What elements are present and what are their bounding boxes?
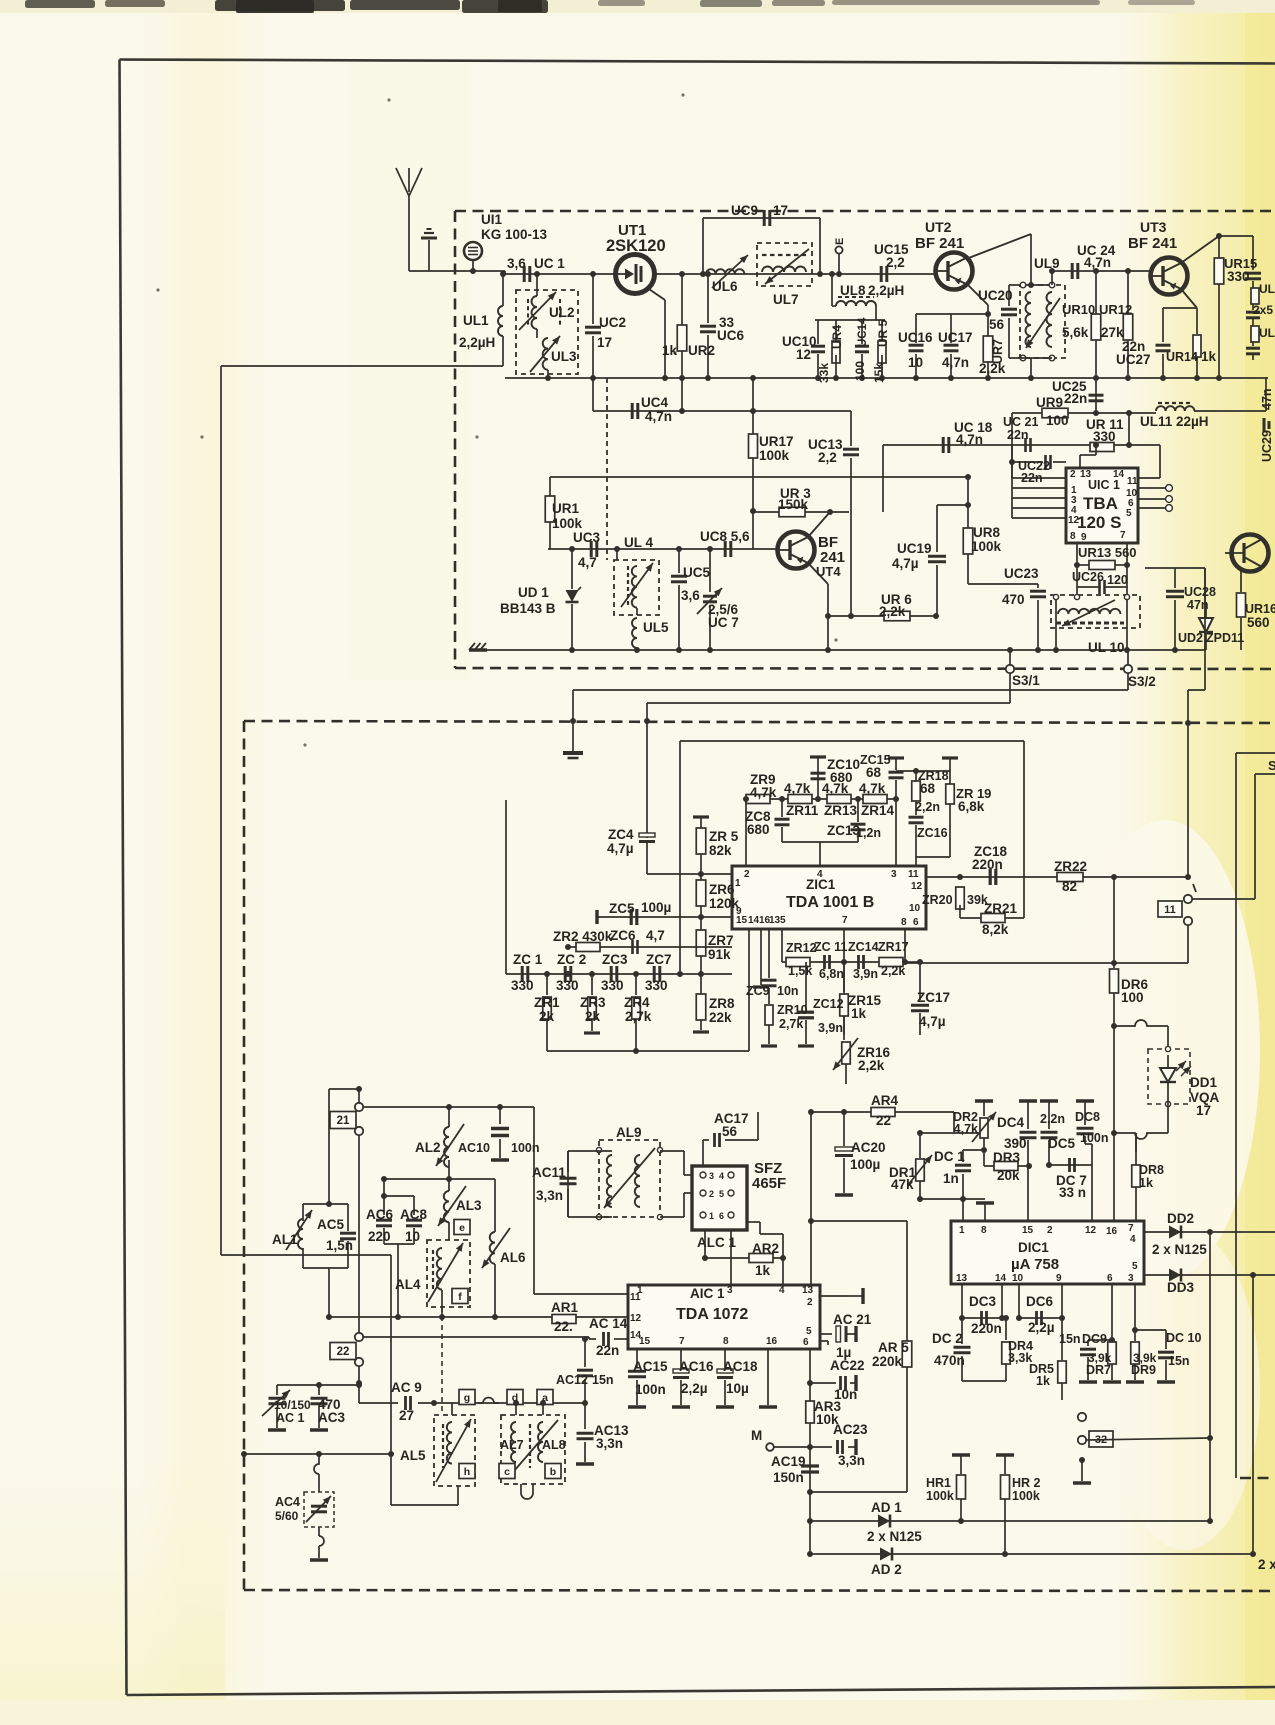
- svg-text:14: 14: [748, 915, 760, 926]
- svg-text:AC 14: AC 14: [589, 1316, 628, 1331]
- svg-text:AC5: AC5: [317, 1217, 344, 1232]
- svg-text:4,7: 4,7: [646, 928, 665, 943]
- svg-text:DR7: DR7: [1086, 1363, 1111, 1377]
- svg-text:3,9n: 3,9n: [818, 1021, 843, 1035]
- svg-text:UI1: UI1: [481, 212, 503, 227]
- svg-text:16: 16: [1106, 1226, 1118, 1237]
- svg-text:17: 17: [597, 335, 612, 350]
- svg-text:2: 2: [1070, 469, 1076, 480]
- svg-text:UL3: UL3: [551, 349, 577, 364]
- svg-text:15n: 15n: [1168, 1354, 1190, 1368]
- svg-text:ZC7: ZC7: [646, 952, 672, 967]
- svg-text:10: 10: [908, 355, 923, 370]
- svg-text:ZC 2: ZC 2: [557, 952, 586, 967]
- svg-text:4,7µ: 4,7µ: [892, 556, 919, 571]
- svg-text:AL5: AL5: [400, 1448, 426, 1463]
- svg-text:22n: 22n: [596, 1343, 619, 1358]
- svg-text:UR4: UR4: [830, 325, 844, 349]
- svg-text:100n: 100n: [511, 1141, 540, 1155]
- svg-text:68: 68: [920, 781, 936, 796]
- svg-text:680: 680: [747, 822, 770, 837]
- svg-text:15k: 15k: [872, 363, 886, 383]
- svg-text:DC8: DC8: [1075, 1110, 1100, 1124]
- svg-text:22n: 22n: [1064, 391, 1087, 406]
- svg-text:4,7n: 4,7n: [645, 409, 672, 424]
- svg-text:UR7: UR7: [991, 339, 1005, 364]
- svg-text:a: a: [542, 1392, 548, 1404]
- svg-text:AD 2: AD 2: [871, 1562, 902, 1577]
- svg-text:b: b: [550, 1466, 556, 1478]
- svg-text:UT3: UT3: [1140, 219, 1167, 235]
- svg-text:g: g: [464, 1392, 470, 1404]
- svg-text:22n: 22n: [1007, 428, 1029, 442]
- svg-text:1,2n: 1,2n: [856, 826, 881, 840]
- svg-text:M: M: [751, 1428, 762, 1443]
- svg-text:4,7µ: 4,7µ: [607, 841, 634, 856]
- svg-text:7: 7: [679, 1336, 685, 1347]
- svg-text:UC3: UC3: [573, 530, 600, 545]
- svg-text:22: 22: [337, 1346, 350, 1358]
- svg-text:2,2k: 2,2k: [881, 964, 905, 978]
- svg-text:ZR8: ZR8: [709, 996, 735, 1011]
- svg-text:1k: 1k: [662, 343, 678, 358]
- svg-text:3,6: 3,6: [507, 256, 526, 271]
- svg-text:ZC 11: ZC 11: [814, 940, 847, 954]
- svg-text:2,2k: 2,2k: [858, 1058, 885, 1073]
- svg-text:12: 12: [1085, 1225, 1097, 1236]
- svg-text:91k: 91k: [708, 947, 731, 962]
- svg-text:12: 12: [630, 1313, 642, 1324]
- svg-text:S3/1: S3/1: [1012, 673, 1040, 688]
- svg-text:1: 1: [959, 1225, 965, 1236]
- svg-text:2SK120: 2SK120: [606, 237, 666, 255]
- svg-text:DD3: DD3: [1167, 1280, 1194, 1295]
- svg-text:UR1: UR1: [552, 501, 579, 516]
- svg-text:5: 5: [1126, 508, 1132, 519]
- svg-text:11: 11: [630, 1292, 641, 1303]
- svg-text:10: 10: [909, 903, 921, 914]
- svg-text:22k: 22k: [709, 1010, 732, 1025]
- svg-text:5/60: 5/60: [275, 1509, 299, 1523]
- svg-text:AR2: AR2: [752, 1241, 779, 1256]
- svg-text:BB143 B: BB143 B: [500, 601, 556, 616]
- svg-text:UC28: UC28: [1184, 585, 1216, 599]
- svg-text:10n: 10n: [834, 1387, 857, 1402]
- svg-text:47n: 47n: [1187, 598, 1209, 612]
- svg-text:11: 11: [908, 869, 919, 880]
- svg-text:100k: 100k: [759, 448, 790, 463]
- svg-text:3,9n: 3,9n: [853, 967, 878, 981]
- svg-text:AL2: AL2: [415, 1140, 441, 1155]
- svg-text:UC8 5,6: UC8 5,6: [700, 529, 750, 544]
- svg-text:ZR6: ZR6: [709, 882, 735, 897]
- svg-text:82: 82: [1062, 879, 1077, 894]
- svg-text:4,7k: 4,7k: [954, 1122, 978, 1136]
- svg-text:12: 12: [1068, 515, 1080, 526]
- svg-text:2: 2: [807, 1297, 813, 1308]
- svg-text:AR 5: AR 5: [878, 1340, 909, 1355]
- svg-text:UC14: UC14: [857, 317, 869, 347]
- svg-text:AC22: AC22: [830, 1358, 865, 1373]
- svg-text:ZR3: ZR3: [580, 995, 606, 1010]
- svg-text:UC23: UC23: [1004, 566, 1039, 581]
- svg-text:DC6: DC6: [1026, 1294, 1053, 1309]
- svg-text:UC29: UC29: [1260, 430, 1274, 462]
- svg-text:4,7k: 4,7k: [784, 781, 811, 796]
- svg-text:2,2µH: 2,2µH: [868, 283, 904, 298]
- svg-text:560: 560: [1247, 615, 1270, 630]
- svg-text:465F: 465F: [752, 1175, 786, 1192]
- svg-text:3: 3: [727, 1285, 733, 1296]
- svg-text:10µ: 10µ: [726, 1381, 749, 1396]
- svg-text:UIC 1: UIC 1: [1088, 478, 1120, 492]
- svg-text:120: 120: [1107, 573, 1128, 587]
- svg-text:4: 4: [1130, 1234, 1136, 1245]
- svg-text:e: e: [459, 1222, 465, 1234]
- svg-text:AC12: AC12: [556, 1373, 588, 1387]
- svg-text:1k: 1k: [1201, 349, 1217, 364]
- svg-text:f: f: [458, 1291, 462, 1303]
- svg-text:UR 5: UR 5: [876, 319, 890, 347]
- svg-text:14: 14: [1113, 469, 1125, 480]
- svg-text:4,7n: 4,7n: [1084, 255, 1111, 270]
- svg-text:UC4: UC4: [641, 395, 668, 410]
- svg-text:UC16: UC16: [898, 330, 933, 345]
- svg-text:7: 7: [1120, 530, 1126, 541]
- svg-text:UD2: UD2: [1178, 631, 1203, 645]
- svg-text:8: 8: [981, 1225, 987, 1236]
- svg-text:6: 6: [1107, 1273, 1113, 1284]
- svg-text:TBA: TBA: [1083, 494, 1118, 513]
- svg-text:ZR11: ZR11: [786, 803, 819, 818]
- svg-text:4,7k: 4,7k: [859, 781, 886, 796]
- svg-text:10: 10: [405, 1229, 420, 1244]
- svg-text:2,7k: 2,7k: [625, 1009, 652, 1024]
- svg-text:1k: 1k: [755, 1263, 771, 1278]
- svg-text:ZR2 430k: ZR2 430k: [553, 929, 613, 944]
- svg-text:UT2: UT2: [925, 219, 952, 235]
- svg-text:17: 17: [773, 203, 788, 218]
- svg-text:ZC16: ZC16: [917, 826, 948, 840]
- svg-text:100k: 100k: [971, 539, 1002, 554]
- svg-text:120k: 120k: [709, 896, 740, 911]
- svg-text:2,2: 2,2: [886, 255, 905, 270]
- svg-text:1k: 1k: [1036, 1374, 1050, 1388]
- svg-text:14: 14: [995, 1273, 1007, 1284]
- svg-text:DR3: DR3: [993, 1150, 1020, 1165]
- svg-text:BF 241: BF 241: [915, 235, 964, 252]
- svg-text:UL6: UL6: [712, 279, 738, 294]
- svg-text:AIC 1: AIC 1: [690, 1286, 725, 1301]
- svg-text:1k: 1k: [851, 1006, 867, 1021]
- svg-text:AC3: AC3: [318, 1410, 345, 1425]
- svg-text:2 x N125: 2 x N125: [867, 1529, 922, 1544]
- svg-text:3,3n: 3,3n: [596, 1436, 623, 1451]
- svg-text:330: 330: [645, 978, 668, 993]
- svg-text:82k: 82k: [709, 843, 732, 858]
- svg-text:5: 5: [806, 1326, 812, 1337]
- svg-text:ZC 1: ZC 1: [513, 952, 543, 967]
- svg-text:7: 7: [1128, 1223, 1134, 1234]
- svg-text:DIC1: DIC1: [1018, 1240, 1049, 1255]
- svg-text:UC2: UC2: [599, 315, 626, 330]
- svg-text:UL1: UL1: [463, 313, 489, 328]
- svg-text:27k: 27k: [1101, 325, 1124, 340]
- svg-text:220n: 220n: [972, 857, 1003, 872]
- svg-text:15: 15: [639, 1336, 651, 1347]
- svg-text:DD1: DD1: [1190, 1075, 1217, 1090]
- svg-text:5: 5: [1132, 1261, 1138, 1272]
- svg-text:3,6: 3,6: [681, 588, 700, 603]
- svg-text:AC8: AC8: [400, 1207, 427, 1222]
- svg-text:ALC 1: ALC 1: [697, 1235, 736, 1250]
- svg-text:UR9: UR9: [1036, 395, 1063, 410]
- svg-text:22.: 22.: [554, 1319, 573, 1334]
- svg-text:330: 330: [601, 978, 624, 993]
- svg-text:ZC17: ZC17: [917, 990, 950, 1005]
- svg-text:4: 4: [779, 1285, 785, 1296]
- svg-text:AC20: AC20: [851, 1140, 886, 1155]
- svg-text:330: 330: [511, 978, 534, 993]
- svg-text:DC 10: DC 10: [1166, 1331, 1201, 1345]
- svg-text:UR16: UR16: [1245, 602, 1275, 616]
- svg-text:DC3: DC3: [969, 1294, 996, 1309]
- svg-text:AL3: AL3: [456, 1198, 482, 1213]
- svg-text:2 x: 2 x: [1258, 1557, 1275, 1572]
- svg-text:UC 7: UC 7: [708, 615, 739, 630]
- svg-text:470n: 470n: [934, 1353, 965, 1368]
- svg-text:13: 13: [956, 1273, 968, 1284]
- svg-text:12: 12: [911, 881, 923, 892]
- svg-text:47k: 47k: [891, 1177, 914, 1192]
- svg-text:1,5k: 1,5k: [788, 964, 812, 978]
- svg-text:4,7k: 4,7k: [750, 785, 777, 800]
- svg-text:AC 9: AC 9: [391, 1380, 422, 1395]
- svg-text:3: 3: [1128, 1273, 1134, 1284]
- svg-text:3: 3: [709, 1171, 714, 1181]
- svg-text:UR10: UR10: [1062, 302, 1095, 317]
- svg-text:UL7: UL7: [773, 292, 799, 307]
- svg-text:ZR1: ZR1: [534, 995, 560, 1010]
- svg-text:15: 15: [1022, 1225, 1034, 1236]
- svg-text:2k: 2k: [539, 1009, 555, 1024]
- svg-text:UL11: UL11: [1140, 414, 1173, 429]
- svg-text:UC 1: UC 1: [534, 256, 565, 271]
- svg-text:HR1: HR1: [926, 1476, 951, 1490]
- svg-text:UL8: UL8: [840, 283, 866, 298]
- svg-text:UR2: UR2: [688, 343, 715, 358]
- svg-text:UC 21: UC 21: [1003, 415, 1038, 429]
- svg-text:TDA 1072: TDA 1072: [676, 1306, 748, 1323]
- svg-text:ZPD11: ZPD11: [1206, 631, 1244, 645]
- svg-text:AC15: AC15: [633, 1359, 668, 1374]
- svg-text:20k: 20k: [997, 1168, 1020, 1183]
- svg-text:15n: 15n: [592, 1373, 614, 1387]
- svg-text:UC27: UC27: [1116, 352, 1151, 367]
- svg-text:d: d: [512, 1392, 518, 1404]
- svg-text:HR 2: HR 2: [1012, 1476, 1041, 1490]
- svg-text:100n: 100n: [1080, 1131, 1109, 1145]
- svg-text:1k: 1k: [1139, 1176, 1153, 1190]
- svg-text:AR1: AR1: [551, 1300, 578, 1315]
- svg-text:4,7k: 4,7k: [822, 781, 849, 796]
- svg-text:33 n: 33 n: [1059, 1185, 1086, 1200]
- svg-text:8,2k: 8,2k: [982, 922, 1009, 937]
- svg-text:UR14: UR14: [1166, 350, 1198, 364]
- svg-text:ZR14: ZR14: [861, 803, 895, 818]
- svg-text:AL4: AL4: [395, 1277, 421, 1292]
- svg-text:ZC14: ZC14: [848, 940, 879, 954]
- svg-text:1: 1: [709, 1211, 714, 1221]
- svg-text:11: 11: [1164, 904, 1176, 916]
- svg-text:6: 6: [719, 1211, 724, 1221]
- svg-text:5: 5: [780, 915, 786, 926]
- svg-text:100µ: 100µ: [641, 900, 671, 915]
- svg-text:DD2: DD2: [1167, 1211, 1194, 1226]
- svg-text:5: 5: [719, 1189, 724, 1199]
- svg-text:2 x N125: 2 x N125: [1152, 1242, 1207, 1257]
- svg-text:UC5: UC5: [683, 565, 710, 580]
- svg-text:UL: UL: [1259, 282, 1275, 296]
- svg-text:ZR22: ZR22: [1054, 859, 1087, 874]
- svg-text:AC19: AC19: [771, 1454, 806, 1469]
- svg-text:E: E: [834, 238, 846, 245]
- svg-text:9: 9: [1056, 1273, 1062, 1284]
- svg-text:56: 56: [989, 317, 1005, 332]
- svg-text:8: 8: [901, 917, 907, 928]
- svg-text:UC17: UC17: [938, 330, 973, 345]
- svg-text:11: 11: [1127, 476, 1138, 487]
- svg-text:100: 100: [1046, 413, 1069, 428]
- svg-text:220k: 220k: [872, 1354, 903, 1369]
- svg-text:2,2n: 2,2n: [1040, 1112, 1065, 1126]
- svg-text:ZC5: ZC5: [609, 901, 635, 916]
- svg-text:22: 22: [876, 1113, 891, 1128]
- svg-text:ZR21: ZR21: [984, 901, 1018, 916]
- svg-text:2,2n: 2,2n: [915, 800, 940, 814]
- svg-text:AL8: AL8: [542, 1438, 566, 1452]
- svg-text:UR12: UR12: [1099, 302, 1132, 317]
- svg-text:33k: 33k: [817, 363, 831, 383]
- svg-text:17: 17: [1196, 1103, 1211, 1118]
- svg-text:UL2: UL2: [549, 305, 575, 320]
- svg-text:3: 3: [891, 869, 897, 880]
- svg-text:AL7: AL7: [500, 1438, 524, 1452]
- svg-text:1,5n: 1,5n: [326, 1238, 353, 1253]
- svg-text:UR17: UR17: [759, 434, 794, 449]
- svg-text:12: 12: [796, 347, 811, 362]
- svg-text:150k: 150k: [778, 497, 809, 512]
- svg-text:UC6: UC6: [717, 328, 744, 343]
- svg-text:330: 330: [1093, 429, 1116, 444]
- svg-text:UC19: UC19: [897, 541, 932, 556]
- svg-text:DC5: DC5: [1048, 1136, 1075, 1151]
- svg-text:2,7k: 2,7k: [779, 1017, 803, 1031]
- svg-text:ZR10: ZR10: [777, 1003, 808, 1017]
- svg-text:10/150: 10/150: [274, 1398, 311, 1412]
- svg-text:2,2: 2,2: [818, 450, 837, 465]
- svg-text:UR13 560: UR13 560: [1078, 545, 1137, 560]
- svg-text:6,8n: 6,8n: [819, 967, 844, 981]
- svg-text:DR9: DR9: [1131, 1363, 1156, 1377]
- svg-text:DC4: DC4: [997, 1115, 1024, 1130]
- svg-text:ZC12: ZC12: [813, 997, 844, 1011]
- svg-text:BF 241: BF 241: [1128, 235, 1177, 252]
- svg-text:100k: 100k: [1012, 1489, 1040, 1503]
- svg-text:220n: 220n: [971, 1321, 1002, 1336]
- svg-text:ZC9: ZC9: [746, 984, 770, 998]
- svg-text:7: 7: [842, 915, 848, 926]
- svg-text:TDA 1001 B: TDA 1001 B: [786, 894, 874, 911]
- svg-text:10n: 10n: [777, 984, 799, 998]
- svg-text:2: 2: [1047, 1225, 1053, 1236]
- svg-text:13: 13: [769, 915, 781, 926]
- svg-text:10k: 10k: [816, 1412, 839, 1427]
- svg-text:AC16: AC16: [679, 1359, 714, 1374]
- svg-text:100: 100: [853, 361, 867, 381]
- svg-text:3,3n: 3,3n: [536, 1188, 563, 1203]
- svg-text:ZR 5: ZR 5: [709, 829, 739, 844]
- svg-text:100k: 100k: [552, 516, 583, 531]
- svg-text:22µH: 22µH: [1176, 414, 1209, 429]
- svg-text:16: 16: [766, 1336, 778, 1347]
- svg-text:220: 220: [368, 1229, 391, 1244]
- svg-text:5,6k: 5,6k: [1062, 325, 1089, 340]
- svg-text:DR8: DR8: [1139, 1163, 1164, 1177]
- svg-text:330: 330: [556, 978, 579, 993]
- svg-text:2: 2: [744, 869, 750, 880]
- svg-text:UR8: UR8: [973, 525, 1000, 540]
- svg-text:UL5: UL5: [643, 620, 669, 635]
- svg-text:ZR13: ZR13: [824, 803, 858, 818]
- svg-text:1n: 1n: [943, 1171, 959, 1186]
- svg-text:AC 21: AC 21: [833, 1312, 872, 1327]
- svg-text:AC18: AC18: [723, 1359, 758, 1374]
- svg-text:UL9: UL9: [1034, 256, 1060, 271]
- svg-text:22n: 22n: [1021, 471, 1043, 485]
- svg-text:ZR20: ZR20: [922, 893, 953, 907]
- svg-text:ZR12: ZR12: [786, 941, 817, 955]
- svg-text:DC 2: DC 2: [932, 1331, 963, 1346]
- svg-text:UD 1: UD 1: [518, 585, 549, 600]
- svg-text:AR4: AR4: [871, 1093, 898, 1108]
- svg-text:AD 1: AD 1: [871, 1500, 902, 1515]
- svg-text:10: 10: [1012, 1273, 1024, 1284]
- svg-text:AC6: AC6: [366, 1207, 393, 1222]
- svg-text:100: 100: [1121, 990, 1144, 1005]
- svg-text:100n: 100n: [635, 1382, 666, 1397]
- svg-text:ZR4: ZR4: [624, 995, 650, 1010]
- svg-text:AC 1: AC 1: [276, 1411, 305, 1425]
- svg-text:6,8k: 6,8k: [958, 799, 985, 814]
- svg-text:AC10: AC10: [458, 1141, 490, 1155]
- svg-text:ZC6: ZC6: [610, 928, 636, 943]
- svg-text:4: 4: [719, 1171, 724, 1181]
- svg-text:6: 6: [913, 917, 919, 928]
- svg-text:1: 1: [735, 878, 741, 889]
- svg-text:AL9: AL9: [616, 1125, 642, 1140]
- svg-text:S3/2: S3/2: [1128, 674, 1156, 689]
- svg-text:S: S: [1268, 758, 1275, 773]
- svg-text:µA 758: µA 758: [1011, 1256, 1059, 1273]
- svg-text:100µ: 100µ: [850, 1157, 880, 1172]
- svg-text:68: 68: [866, 765, 882, 780]
- svg-text:390: 390: [1004, 1136, 1027, 1151]
- svg-text:2,2µ: 2,2µ: [1028, 1320, 1055, 1335]
- svg-text:ZR17: ZR17: [878, 940, 909, 954]
- svg-text:21: 21: [337, 1115, 350, 1127]
- svg-text:ZC3: ZC3: [602, 952, 628, 967]
